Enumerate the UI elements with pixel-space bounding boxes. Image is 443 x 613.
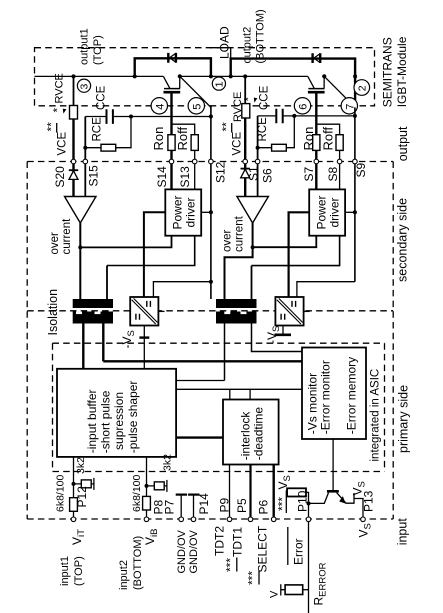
svg-text:P12: P12 [75, 486, 89, 508]
terminal circle 7 [341, 98, 357, 114]
svg-text:S9: S9 [354, 162, 368, 177]
svg-text:-input buffer-short pulse supr: -input buffer-short pulse supression-pul… [85, 381, 140, 454]
svg-text:S20: S20 [53, 166, 67, 188]
node: comp2 out branch [251, 245, 255, 249]
IGBT2 gate bar (thick) [308, 91, 325, 94]
pin P13 [361, 517, 366, 522]
V supply bar at RERROR [281, 584, 285, 595]
svg-text:6k8/100: 6k8/100 [131, 474, 143, 512]
wire: Vin1 line from ASIC to P12 [73, 457, 75, 519]
diode D1 cathode bar [168, 53, 176, 63]
node: 3k2-1 tap [72, 482, 76, 486]
integrated-in-ASIC dashed left [52, 343, 54, 471]
svg-text:output: output [396, 126, 410, 161]
box: DC/DC converter 2 [275, 297, 303, 326]
transformer TR2 winding bars [216, 299, 257, 308]
pin S15 [83, 159, 88, 164]
box: power driver 1 [165, 189, 201, 235]
svg-text:CCE: CCE [96, 85, 108, 110]
pin S14 [169, 159, 174, 164]
wire: VS bus to monitor box (thick) [103, 360, 302, 362]
node: driver1/S12 [209, 210, 213, 214]
input pin dashed row [27, 518, 393, 520]
secondary S-pin dashed row (output boundary) [27, 161, 393, 163]
wire: CCE1 top wire [85, 116, 131, 118]
wire: S20 collector sense upper [73, 76, 75, 105]
ground bar DCDC1 [139, 336, 149, 338]
wire: P13 VS feed [354, 499, 363, 520]
SECTION: inputs [70, 457, 366, 596]
capacitor CCE1 plates [107, 109, 113, 124]
integrated-in-ASIC dashed top [53, 342, 385, 344]
wire: RCE1 bottom wire [85, 117, 131, 148]
svg-text:secondary side: secondary side [396, 198, 410, 282]
node: RCE/CCE2 right [292, 114, 296, 118]
ground stub P7 [180, 495, 182, 520]
ground stub P14 [193, 495, 195, 520]
wire: Vin2 line from ASIC to P8 [146, 457, 148, 519]
wire: S12 emitter line [210, 107, 212, 300]
terminal circle 6 [294, 98, 310, 114]
wire: Roff2 branch [316, 124, 339, 135]
wire: 3k2-2 stub [147, 485, 167, 487]
IGBT1 bar-to-rail link [179, 76, 181, 88]
wire: transformer1 secondary b [106, 266, 108, 300]
wire: Roff1 to driver [194, 150, 196, 189]
svg-text:Powerdriver: Powerdriver [314, 195, 341, 229]
node: collector to P10 line [307, 501, 311, 505]
box U2: interlock / deadtime [223, 400, 279, 465]
wire: load rail ch2 (to IGBT2) [231, 75, 308, 77]
wire: S1 pin to diode [244, 162, 246, 197]
IGBT1 gate bar (thick) [164, 91, 181, 94]
svg-text:S7: S7 [302, 166, 316, 181]
transistor Q1 collector lead [309, 493, 329, 504]
svg-text:6: 6 [298, 104, 310, 110]
svg-text:S13: S13 [178, 166, 192, 188]
diode D1 triangle (points left) [170, 53, 176, 62]
node: comp1 out branch [78, 245, 82, 249]
svg-text:RCE: RCE [92, 117, 104, 142]
wire: ASIC box to transformer2 primary [176, 380, 224, 382]
svg-text:Roff: Roff [175, 127, 190, 151]
freewheel diode D1 loop (thick) [135, 58, 211, 76]
wire: Roff2 to driver [339, 150, 341, 189]
svg-text:SELECT: SELECT [256, 525, 270, 572]
svg-text:***: *** [224, 558, 238, 572]
wire: emitter1 sense to S12 line [131, 116, 211, 118]
IGBT2 channel bar [308, 88, 324, 90]
pin P5 [248, 517, 253, 522]
pin S6 [255, 159, 260, 164]
wire: DCDC1 gnd leg into ASIC [143, 326, 145, 369]
svg-text:Isolation: Isolation [46, 289, 60, 336]
primary/input dashed boundary [53, 471, 385, 473]
transistor Q1 base bar [327, 490, 339, 493]
transistor IGBT1: collector diagonal [163, 76, 169, 88]
node: driver2/S9 [353, 210, 357, 214]
wire: gate2 Ron to driver (thick) [315, 150, 317, 189]
svg-text:2: 2 [357, 85, 369, 91]
resistor: internal pull-up to VS at P10 [287, 488, 306, 496]
svg-text:3k2: 3k2 [75, 457, 87, 474]
3k2-1 end bar [93, 478, 95, 490]
svg-text:Ron: Ron [301, 127, 316, 151]
pin P7 [179, 517, 184, 522]
node: RCE1 left on S15 [83, 146, 87, 150]
wire: transformer1 primary b to VS bus (thick) [102, 324, 104, 362]
wire: driver1 lower pin to transformer1 [107, 236, 195, 266]
pin S12 [209, 159, 214, 164]
svg-text:P7: P7 [163, 499, 177, 514]
node: rail / loop2 right [353, 74, 357, 78]
svg-text:TDT2: TDT2 [213, 526, 227, 556]
wire: Roff1 branch [172, 124, 195, 135]
svg-text:***: *** [246, 571, 260, 585]
wire: DCDC1 0V to S12 [153, 282, 211, 297]
wire: monitor to transistor base [332, 439, 334, 491]
svg-text:Roff: Roff [321, 127, 336, 151]
wire: transformer2 secondary b [251, 266, 253, 299]
svg-text:***: *** [276, 497, 290, 511]
wire: collector rail ch1 (DC+ to IGBT1) [35, 75, 164, 77]
SECTION: primary [57, 324, 366, 613]
svg-text:S12: S12 [214, 161, 228, 183]
wire: RCE2 bottom wire [258, 116, 295, 148]
wire: emitter2 sense to S9 line [294, 115, 355, 117]
wire: S20 pin to diode [72, 162, 74, 197]
SECTION: module [35, 48, 370, 114]
diode D4 bar (cathode up) [241, 168, 250, 170]
svg-text:integrated in ASIC: integrated in ASIC [370, 369, 382, 462]
svg-text:RVCE: RVCE [54, 73, 66, 103]
wire: CCE2 top wire [258, 115, 295, 117]
node: 3k2-2 tap [145, 484, 149, 488]
box: power driver 2 [309, 189, 345, 235]
svg-text:**: ** [45, 122, 59, 132]
IGBT2 bar-to-rail link [323, 76, 325, 88]
IGBT1 channel bar [164, 88, 180, 90]
resistor Ron1 [168, 135, 175, 151]
wire: DCDC2 right stub [304, 310, 310, 312]
wire: transformer2 primary a from ASIC box [224, 324, 226, 381]
pin P9 [227, 517, 232, 522]
wire: S6 emitter sense line ch2 [257, 116, 259, 197]
node: diode loop1 right on rail [209, 74, 213, 78]
wire: driver2 right pin to S9 [345, 211, 355, 213]
pin P6 [271, 517, 276, 522]
wire: S9 emitter line [354, 107, 356, 281]
wire: TDT2 line to P9 [229, 465, 231, 520]
box U1: input buffer ASIC [57, 369, 176, 457]
svg-text:Ron: Ron [151, 127, 166, 151]
svg-text:3k2: 3k2 [162, 454, 174, 471]
terminal circle 4 [151, 98, 167, 114]
svg-text:S8: S8 [326, 166, 340, 181]
svg-text:CCE: CCE [259, 85, 271, 110]
wire: comparator2 output [225, 223, 253, 299]
wire: LOAD stub up and left [210, 48, 231, 77]
resistor RCE2 [272, 144, 287, 151]
resistor 3k2 ch1 [81, 480, 91, 488]
3k2-2 end bar [166, 480, 168, 492]
wire: S1 sense to pin (thick) [244, 118, 246, 162]
wire: comp2 to power driver2 bottom [253, 236, 317, 248]
resistor RCE1 [101, 144, 116, 151]
isolation dashed line [27, 310, 393, 312]
svg-text:P9: P9 [218, 497, 232, 512]
wire: TDT1 line to P5 (thick) [249, 465, 251, 520]
svg-text:primary side: primary side [397, 385, 411, 453]
svg-text:VCE: VCE [57, 132, 69, 156]
wire: emitter2 / terminal 2 line (thick) [354, 76, 356, 107]
svg-text:4: 4 [154, 104, 166, 110]
svg-text:6k8/100: 6k8/100 [55, 474, 67, 512]
terminal circle 3 [77, 79, 90, 92]
transformer TR1 winding bars [73, 299, 113, 308]
svg-text:1: 1 [213, 81, 225, 87]
wire: stubs into interlock box top [230, 389, 250, 399]
resistor 6k8/100 ch2 [143, 496, 151, 510]
svg-text:VCE: VCE [232, 132, 244, 156]
box: DC/DC converter 1 [130, 297, 158, 326]
wire: driver2 lower pin to transformer2 [252, 236, 340, 266]
svg-text:-interlock-deadtime: -interlock-deadtime [239, 407, 266, 461]
svg-text:**: ** [220, 122, 234, 132]
pin S20 [71, 159, 76, 164]
wire: S20 sense to pin (thick) [72, 119, 74, 162]
svg-text:P5: P5 [235, 498, 249, 513]
wire: DCDC1 right stub [158, 310, 164, 312]
wire: gate2 line (thick) [315, 92, 317, 135]
wire: driver1 right pin to S12 [201, 211, 211, 213]
svg-text:P10: P10 [296, 490, 310, 512]
svg-text:P14: P14 [197, 493, 211, 515]
wire: transformer1 primary a to ASIC box (thick) [82, 324, 84, 369]
terminal circle 2 [354, 80, 370, 96]
resistor RERROR external [285, 585, 303, 595]
box U3: Vs monitor / error [302, 348, 366, 440]
SECTION: secondary [65, 76, 358, 325]
wire: comparator1 output [79, 223, 81, 299]
svg-text:S14: S14 [155, 166, 169, 188]
wire: DCDC2 gnd leg [282, 326, 284, 334]
terminal circle 5 [188, 98, 204, 114]
node: rail / RVCE1 tap [72, 74, 76, 78]
pin P10 [306, 517, 311, 522]
node: sense junction on S12 [209, 115, 213, 119]
node: RCE/CCE1 right [129, 115, 133, 119]
svg-text:Error: Error [292, 538, 306, 565]
node: LOAD tap [229, 74, 233, 78]
op-amp: over-current comparator 1 [65, 197, 97, 224]
svg-text:RCE: RCE [257, 117, 269, 142]
wire: transformer2 primary b to monitor box [252, 324, 303, 352]
svg-text:TDT1: TDT1 [231, 527, 245, 557]
svg-text:*: * [51, 108, 65, 113]
pin S1 [243, 159, 248, 164]
wire: driver2 left pin to DCDC2 (thick) [289, 212, 310, 297]
svg-text:LOAD: LOAD [218, 26, 232, 59]
svg-text:*: * [242, 97, 256, 102]
driver right dashed boundary [392, 162, 394, 520]
resistor Roff1 [191, 135, 198, 151]
emitter VS stub bar [353, 493, 355, 504]
pin S7 [314, 159, 319, 164]
node: sense junction on S9 [353, 114, 357, 118]
wire: S1 collector sense ch2 [244, 76, 246, 103]
node: DCDC1/S12 [209, 280, 213, 284]
svg-text:P6: P6 [257, 499, 271, 514]
svg-text:Powerdriver: Powerdriver [171, 195, 198, 229]
pin P14 [191, 517, 196, 522]
wire: DCDC2 0V to S9 [297, 282, 355, 297]
wire: P10 error line [306, 492, 309, 613]
resistor Ron2 [313, 135, 320, 151]
pin S8 [337, 159, 342, 164]
pin P8 [144, 517, 149, 522]
node: IGBT2 top [322, 74, 326, 78]
ground bar DCDC2 [275, 333, 292, 336]
wire: gate1 line (thick) [170, 92, 172, 135]
IGBT module dashed outline [35, 48, 375, 106]
resistor Roff2 [336, 135, 343, 151]
svg-text:V: V [269, 590, 281, 598]
pin P12 [71, 517, 76, 522]
wire: SELECT line to P6 (thick) [273, 465, 275, 520]
node: IGBT1 top [178, 74, 182, 78]
pin S9 [353, 159, 358, 164]
diode D3 bar (cathode up) [69, 169, 78, 171]
wire: driver1 left pin to DCDC1 (thick) [144, 212, 165, 297]
wire: 3k2-1 stub [74, 483, 94, 485]
svg-text:RVCE: RVCE [232, 92, 244, 122]
wire: RERROR to P10 line [303, 589, 309, 591]
IGBT1 emitter diagonal 45deg [180, 76, 211, 107]
VS stub bar at resistor [285, 490, 287, 513]
wire: ASIC box to interlock box (thick) [176, 436, 223, 438]
node: rail / RVCE2 tap [243, 74, 247, 78]
svg-text:5: 5 [191, 104, 203, 110]
capacitor CCE2 plates [276, 109, 282, 124]
wire: gate1 Ron to driver (thick) [170, 150, 172, 189]
svg-text:3: 3 [79, 84, 91, 90]
node: RCE2 left on S6 [256, 146, 260, 150]
op-amp: over-current comparator 2 [237, 197, 269, 224]
wire: comp1 to power driver1 bottom [80, 236, 171, 248]
svg-text:S1: S1 [247, 166, 261, 181]
node: rail / diode loop1 left [133, 74, 137, 78]
resistor 6k8/100 ch1 [70, 498, 78, 512]
terminal circle 1 [212, 77, 225, 90]
resistor RVCE1 [70, 106, 78, 120]
SECTION: dashedlines [27, 48, 393, 519]
resistor RVCE2 [242, 104, 250, 118]
svg-text:SEMITRANSIGBT-Module: SEMITRANSIGBT-Module [381, 36, 409, 107]
driver left dashed boundary [26, 162, 28, 520]
resistor 3k2 ch2 [154, 482, 164, 490]
transistor Q1 emitter lead with arrow [337, 493, 354, 504]
diode D2 triangle (points left) [314, 54, 320, 63]
freewheel diode D2 loop (thick) [231, 59, 355, 77]
svg-text:S15: S15 [87, 165, 101, 187]
diode D4 triangle [241, 169, 250, 178]
IGBT2 emitter diagonal 45deg [324, 76, 355, 107]
wire: S15 emitter sense line [84, 117, 86, 197]
pin S13 [192, 159, 197, 164]
wire: load rail from IGBT1 to terminal 1 [180, 75, 231, 77]
wire: ASIC box to monitor/interlock [176, 388, 302, 390]
svg-text:input: input [396, 518, 410, 546]
svg-text:GND/OVGND/OV: GND/OVGND/OV [176, 529, 200, 573]
transistor IGBT2: collector diagonal [308, 76, 314, 88]
diode D3 triangle [69, 171, 78, 180]
diode D2 cathode bar [313, 53, 321, 63]
svg-text:S6: S6 [261, 168, 275, 183]
